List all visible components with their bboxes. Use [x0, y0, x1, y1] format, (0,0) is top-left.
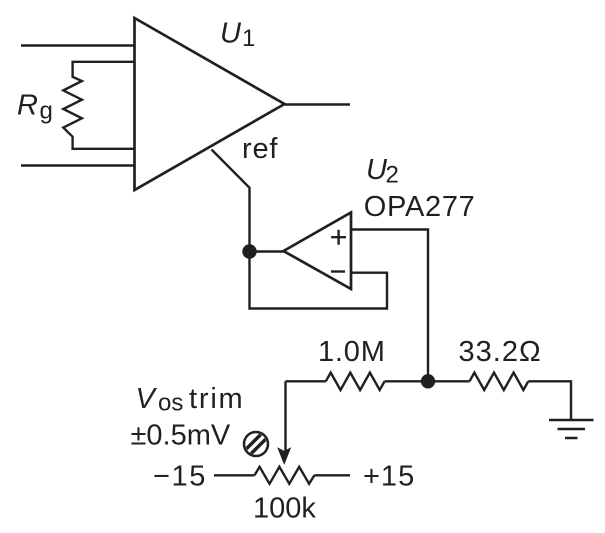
- wire: U2 feedback -input to output node: [250, 252, 388, 309]
- svg-text:ref: ref: [242, 133, 278, 165]
- svg-text:33.2Ω: 33.2Ω: [459, 336, 542, 368]
- svg-text:1.0M: 1.0M: [318, 336, 386, 368]
- in-amp U1: [135, 18, 285, 190]
- wire: pot right lead: [314, 474, 350, 476]
- wire: wiper arrow vertical: [284, 381, 286, 452]
- wiper arrowhead: [277, 447, 291, 465]
- wire: U1 inverting input (bottom): [21, 164, 135, 166]
- svg-text:−15: −15: [153, 461, 207, 493]
- trim symbol circle: [244, 432, 268, 456]
- wire: U2 +input to node B: [351, 230, 428, 379]
- wire: bottom rail left segment: [286, 380, 326, 382]
- svg-text:V: V: [136, 383, 158, 415]
- resistor 33.2ohm: [470, 373, 529, 390]
- svg-text:trim: trim: [189, 383, 245, 415]
- wire: node A to U2 output: [250, 250, 284, 252]
- U2 plus pin marker: [331, 230, 346, 245]
- node A junction dot: [242, 244, 256, 258]
- resistor Rg: [63, 62, 134, 149]
- wire: U1 non-inverting input (top): [21, 44, 135, 46]
- svg-text:R: R: [17, 89, 38, 121]
- svg-text:U: U: [220, 18, 242, 50]
- wire: node B to 33.2: [428, 380, 470, 382]
- svg-text:1: 1: [242, 25, 255, 52]
- trim symbol hatching: [242, 430, 270, 458]
- wire: ref pin: [212, 150, 250, 252]
- svg-text:os: os: [158, 390, 183, 417]
- U2 minus pin marker: [331, 270, 345, 272]
- wire: 1.0M to node B: [385, 380, 428, 382]
- op-amp U2: [284, 213, 352, 290]
- svg-text:±0.5mV: ±0.5mV: [131, 420, 231, 452]
- svg-text:g: g: [40, 98, 53, 125]
- svg-text:+15: +15: [363, 461, 415, 493]
- resistor 1.0M: [326, 373, 385, 390]
- svg-text:OPA277: OPA277: [364, 191, 476, 223]
- svg-text:100k: 100k: [253, 493, 316, 525]
- svg-text:2: 2: [386, 162, 399, 189]
- wire: U1 output: [285, 103, 351, 105]
- potentiometer 100k: [255, 467, 315, 484]
- wire: 33.2 to ground: [528, 381, 571, 419]
- ground: [549, 420, 594, 438]
- node B junction dot: [421, 374, 435, 388]
- wire: pot left lead: [214, 474, 255, 476]
